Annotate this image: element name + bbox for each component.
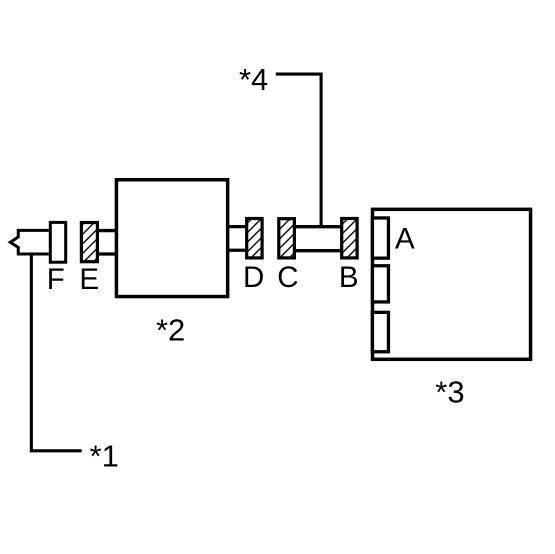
svg-text:*4: *4 — [239, 62, 268, 97]
box *3 — [373, 209, 531, 359]
bushing C (hatched) — [279, 219, 295, 258]
slot 2 — [372, 266, 388, 302]
bushing E (hatched) — [81, 223, 97, 262]
bushing D (hatched) — [247, 219, 262, 258]
svg-text:F: F — [47, 263, 65, 296]
svg-text:D: D — [243, 261, 264, 294]
slot 3 — [372, 312, 388, 351]
connector plug (shaft end) — [10, 230, 49, 254]
svg-text:A: A — [395, 223, 415, 256]
svg-text:*3: *3 — [435, 375, 464, 410]
box *2 — [116, 180, 227, 297]
wire from *4 to shaft — [276, 74, 321, 227]
svg-text:B: B — [339, 261, 359, 294]
washer F — [50, 222, 65, 262]
svg-text:*1: *1 — [90, 439, 119, 474]
shaft box *2 to D — [228, 227, 247, 251]
svg-text:*2: *2 — [156, 313, 185, 348]
bushing B (hatched) — [342, 219, 357, 258]
svg-text:C: C — [277, 261, 298, 294]
shaft C to B — [295, 227, 342, 251]
wire to *1 — [31, 253, 81, 451]
shaft E to box *2 — [99, 231, 117, 254]
slot A (port 1) — [372, 218, 388, 258]
svg-text:E: E — [79, 263, 99, 296]
